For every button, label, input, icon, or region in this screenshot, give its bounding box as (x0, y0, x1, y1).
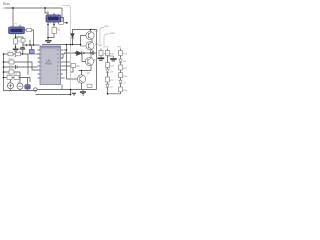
svg-text:Bias: Bias (3, 2, 10, 6)
svg-text:D5: D5 (110, 87, 114, 89)
svg-text:P1: P1 (15, 23, 18, 25)
svg-text:Rt1: Rt1 (99, 44, 103, 47)
svg-text:Q3: Q3 (94, 59, 98, 62)
svg-text:R20: R20 (123, 90, 128, 92)
svg-text:out2: out2 (110, 32, 115, 35)
svg-text:D6: D6 (123, 83, 127, 85)
svg-text:Q1: Q1 (95, 30, 99, 33)
svg-text:4780: 4780 (45, 62, 52, 66)
svg-text:Rt2: Rt2 (106, 46, 110, 49)
svg-text:Q4: Q4 (87, 72, 91, 75)
svg-text:o: o (3, 7, 5, 10)
svg-text:R16: R16 (123, 68, 128, 70)
svg-text:Rb1: Rb1 (118, 47, 123, 49)
svg-text:R13: R13 (110, 54, 115, 56)
svg-text:R18: R18 (123, 76, 128, 78)
svg-text:D3: D3 (110, 72, 114, 74)
svg-text:R8: R8 (77, 65, 81, 68)
svg-text:out1: out1 (104, 25, 109, 28)
svg-text:D4: D4 (123, 61, 127, 63)
svg-text:R15: R15 (110, 66, 115, 68)
svg-text:R17: R17 (110, 80, 115, 82)
svg-text:R14: R14 (123, 54, 128, 56)
svg-text:IN: IN (47, 11, 50, 14)
svg-text:R5: R5 (57, 29, 61, 32)
